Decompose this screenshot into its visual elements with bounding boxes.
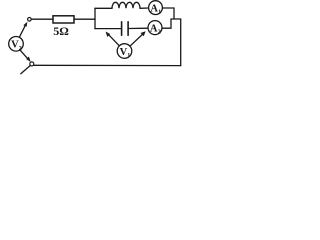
voltmeter V1 xyxy=(117,44,132,59)
wire capacitor to ammeter A2 xyxy=(129,27,148,29)
wire top terminal to resistor xyxy=(31,18,53,20)
wire resistor to left node xyxy=(74,18,95,20)
wire left node to inductor xyxy=(95,7,112,9)
voltmeter V2 xyxy=(9,37,24,52)
wire bottom return xyxy=(34,64,181,66)
wire right node to right edge xyxy=(171,19,181,66)
arrow V2 to top terminal xyxy=(19,22,27,38)
wire left node to capacitor xyxy=(95,28,121,30)
svg-text:1: 1 xyxy=(158,10,161,16)
arrow V1 to capacitor right side xyxy=(130,31,146,46)
svg-text:2: 2 xyxy=(158,30,161,36)
terminal top input xyxy=(28,18,32,22)
node left junction vertical xyxy=(94,8,96,28)
wire A1 to right node xyxy=(162,8,174,19)
arrow V1 to capacitor left side xyxy=(106,32,120,46)
lead tail from bottom terminal xyxy=(21,66,30,74)
wire A2 to right node xyxy=(162,19,171,28)
arrow V2 to bottom terminal xyxy=(20,50,31,62)
resistor R 5ohm box xyxy=(53,16,74,23)
ammeter A2 xyxy=(148,21,162,36)
label 5 ohm xyxy=(53,24,69,38)
svg-text:5Ω: 5Ω xyxy=(53,24,69,38)
terminal bottom input xyxy=(30,62,34,66)
capacitor C plates xyxy=(122,22,129,35)
svg-text:1: 1 xyxy=(127,53,130,59)
inductor L coil xyxy=(112,2,140,8)
ammeter A1 xyxy=(149,1,163,16)
wire inductor to ammeter A1 xyxy=(140,7,149,9)
